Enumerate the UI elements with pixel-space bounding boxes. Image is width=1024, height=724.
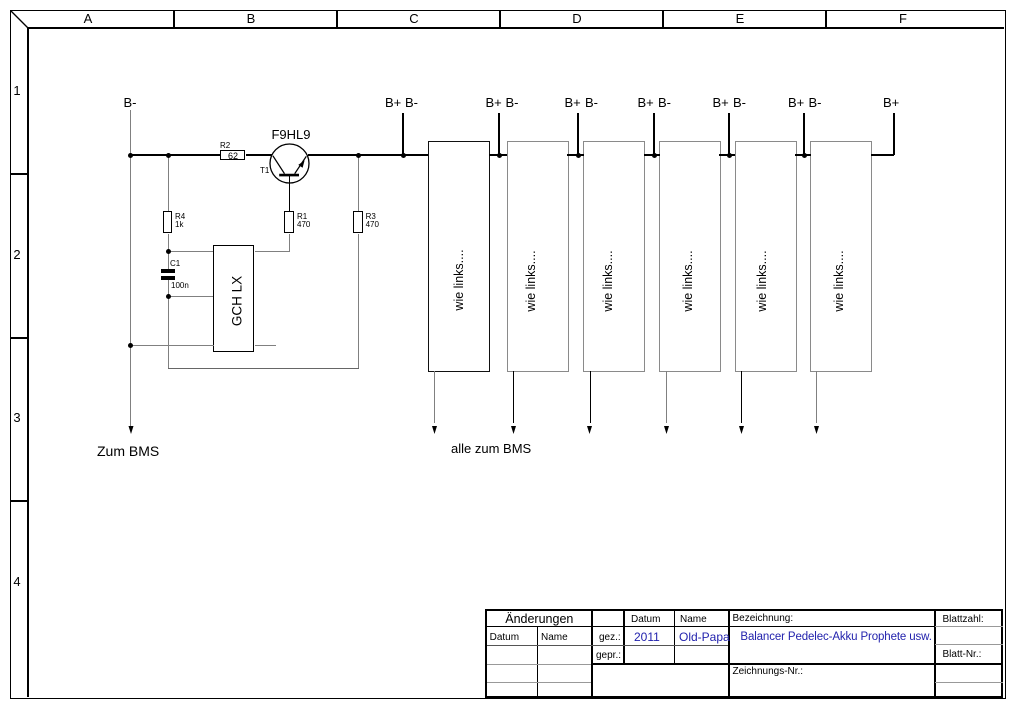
resistor R2 — [220, 150, 245, 160]
node dot C1 top — [166, 249, 171, 254]
wire bus last (block6 to B+) — [871, 154, 894, 156]
value 470 — [297, 220, 310, 229]
label wie links 1 — [452, 249, 466, 310]
wire main bus segment 3 — [308, 154, 428, 156]
row label 2 — [13, 247, 20, 262]
label Aenderungen — [505, 612, 573, 626]
B+/B- label pair 3 — [565, 95, 581, 110]
title vertical thick 3 — [934, 609, 936, 696]
label Blatt-Nr — [943, 649, 982, 660]
wire bus gap 2 — [567, 154, 584, 156]
B+/B- label pair 6 — [788, 95, 804, 110]
column label E — [736, 11, 745, 26]
wire bus gap 5 — [795, 154, 811, 156]
aenderungen row line 1 — [487, 645, 591, 646]
frame inner left line — [27, 27, 29, 697]
gez col divider — [623, 609, 624, 664]
resistor R1 — [284, 211, 295, 234]
wire GCH right stub — [255, 345, 276, 346]
stub wire 1 — [402, 113, 404, 155]
capacitor C1 — [161, 269, 175, 273]
value 62 — [228, 151, 238, 161]
resistor R3 — [353, 211, 362, 234]
wire R4 top — [168, 156, 169, 211]
B+/B- label pair 4 — [638, 95, 654, 110]
label wie links 6 — [832, 250, 846, 311]
title vertical thick 1 — [591, 609, 593, 696]
wire R1 to GCH — [255, 251, 290, 252]
resistor R4 — [163, 211, 172, 234]
column label A — [84, 11, 93, 26]
frame inner top line — [27, 27, 1004, 29]
title header line — [485, 626, 935, 627]
stub wire 6 — [803, 113, 805, 155]
label wie links 3 — [601, 250, 615, 311]
label wie links 4 — [681, 250, 695, 311]
wire main bus segment 2 — [246, 154, 272, 156]
label Datum header — [631, 614, 660, 625]
arrow block 2 — [513, 371, 514, 423]
label T1 — [260, 166, 269, 175]
label Zeichnungs-Nr — [733, 666, 804, 677]
label gepr — [596, 650, 621, 661]
wire bus gap 4 — [719, 154, 735, 156]
node dot gap 1 — [497, 153, 502, 158]
row divider 1/2 — [10, 173, 28, 175]
label C1 — [170, 259, 180, 268]
label R3 — [366, 212, 376, 221]
node dot gap 2 — [576, 153, 581, 158]
wire node to GCH pin2 — [168, 296, 214, 297]
column label C — [409, 11, 418, 26]
wire T1 base down — [289, 176, 290, 211]
wire R3 top — [358, 156, 359, 211]
label alle zum BMS — [451, 441, 531, 456]
blattzahl line 1 — [935, 626, 1003, 627]
value Old-Papa — [679, 630, 730, 644]
wire bus gap 3 — [644, 154, 660, 156]
B+/B- label pair 1 — [385, 95, 401, 110]
label GCH LX — [229, 275, 244, 325]
arrow block 6 — [816, 371, 817, 423]
stub wire 3 — [577, 113, 579, 155]
column label F — [899, 11, 907, 26]
label Blattzahl — [943, 614, 984, 625]
node dot B- bus — [128, 153, 133, 158]
node dot gap 3 — [652, 153, 657, 158]
node dot gap 5 — [802, 153, 807, 158]
column label D — [572, 11, 581, 26]
cell block 2 — [507, 141, 569, 372]
label Datum small — [490, 632, 519, 643]
node dot gap 4 — [727, 153, 732, 158]
row divider 2/3 — [10, 337, 28, 339]
aenderungen row line 3 — [487, 682, 591, 683]
node dot B- lower — [128, 343, 133, 348]
IC GCH LX — [213, 245, 254, 352]
label F9HL9 — [271, 127, 310, 142]
row label 4 — [13, 574, 20, 589]
cell block 6 — [810, 141, 872, 372]
arrow block 3 — [590, 371, 591, 423]
row divider 3/4 — [10, 500, 28, 502]
column divider A/B — [173, 10, 175, 28]
cell block 3 — [583, 141, 645, 372]
label R4 — [175, 212, 185, 221]
wire B- vertical — [130, 110, 131, 428]
cell block 4 — [659, 141, 721, 372]
wire bottom return — [168, 368, 359, 369]
node B- (top left label) — [124, 95, 137, 110]
thick line mid — [591, 663, 1003, 665]
cell block 5 — [735, 141, 797, 372]
column divider C/D — [499, 10, 501, 28]
cell block 1 — [428, 141, 490, 372]
label B+ last — [883, 95, 899, 110]
transistor T1 — [260, 135, 320, 185]
wire main bus segment 1 — [130, 154, 220, 156]
row label 3 — [13, 410, 20, 425]
arrow block 4 — [666, 371, 667, 423]
wire C1 bottom down — [168, 280, 169, 369]
column divider B/C — [336, 10, 338, 28]
node dot R4 bus — [166, 153, 171, 158]
node dot C1 bottom — [166, 294, 171, 299]
aenderungen row line 2 — [487, 664, 591, 665]
wire R1 bottom — [289, 234, 290, 251]
node dot stub1 — [401, 153, 406, 158]
label Bezeichnung — [733, 613, 794, 624]
stub wire 4 — [653, 113, 655, 155]
wire R3 bottom — [358, 234, 359, 369]
B+/B- label pair 5 — [713, 95, 729, 110]
label gez — [599, 632, 621, 643]
arrow block 1 — [434, 371, 435, 423]
value 2011 — [634, 630, 660, 644]
blattzahl line 2 — [935, 644, 1003, 645]
node dot R3 bus — [356, 153, 361, 158]
wire node to GCH pin1 — [168, 251, 214, 252]
value Balancer — [740, 631, 931, 643]
label wie links 5 — [755, 250, 769, 311]
label R1 — [297, 212, 307, 221]
row label 1 — [13, 83, 20, 98]
label Zum BMS — [97, 443, 159, 459]
arrow Zum BMS — [124, 420, 138, 436]
wire bus gap 1 — [489, 154, 507, 156]
value 470 — [366, 220, 379, 229]
column divider E/F — [825, 10, 827, 28]
stub wire last — [893, 113, 895, 155]
label Name header — [680, 614, 707, 625]
column label B — [247, 11, 256, 26]
label Name small — [541, 632, 568, 643]
title vertical thick 2 — [728, 609, 730, 696]
value 1k — [175, 220, 183, 229]
column divider D/E — [662, 10, 664, 28]
stub wire 5 — [728, 113, 730, 155]
value 100n — [171, 281, 189, 290]
label R2 — [220, 141, 230, 150]
stub wire 2 — [498, 113, 500, 155]
aenderungen col divider — [537, 627, 538, 696]
wire R4 bottom to C1 and down — [168, 234, 169, 269]
datum/name divider — [674, 609, 675, 664]
wire GCH left bottom — [130, 345, 214, 346]
B+/B- label pair 2 — [486, 95, 502, 110]
frame corner diagonal — [0, 0, 40, 40]
row line under gez — [591, 645, 728, 646]
arrow block 5 — [741, 371, 742, 423]
blattzahl line 3 — [935, 682, 1003, 683]
title block border — [485, 609, 1003, 698]
label wie links 2 — [524, 250, 538, 311]
